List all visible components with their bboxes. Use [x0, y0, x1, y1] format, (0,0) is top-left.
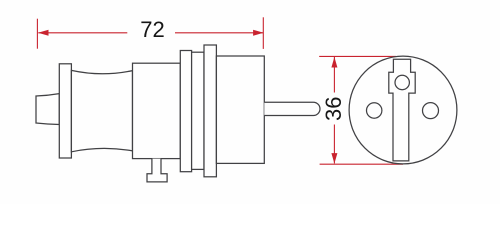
rear body: [216, 56, 264, 163]
waisted body (concave turned section): [71, 70, 132, 151]
right mounting hole: [423, 103, 439, 119]
T-pin below barrel: [147, 159, 167, 182]
left mounting hole: [367, 103, 382, 118]
hole in cam: [395, 75, 409, 89]
svg-text:72: 72: [140, 17, 164, 42]
svg-text:36: 36: [321, 96, 346, 120]
spacer disc: [192, 52, 204, 169]
arrowhead down of 36: [331, 153, 337, 164]
washer 1: [180, 51, 191, 172]
arrowhead right of 72: [253, 30, 264, 36]
washer 2 (large flange disc): [204, 45, 216, 177]
front flange (tall narrow rectangle): [59, 64, 71, 158]
dimension 36: red lines: [319, 56, 403, 164]
cam bar (cross-shaped keyway): [389, 59, 415, 161]
main barrel (large cylinder rectangle): [133, 63, 181, 158]
extension line bottom: [320, 163, 403, 165]
rod with rounded end: [264, 102, 320, 115]
dim line right segment: [175, 32, 263, 34]
extension line top: [319, 55, 396, 57]
dim line top segment: [333, 57, 335, 93]
nose tip (tapered front pin, side view): [36, 94, 59, 125]
arrowhead left of 72: [38, 30, 49, 36]
arrowhead up of 36: [331, 57, 337, 68]
extension line left: [36, 19, 38, 49]
dimension 72: red lines: [37, 17, 263, 49]
dim line left segment: [38, 32, 127, 34]
front view outer circle: [349, 56, 457, 164]
extension line right: [262, 17, 264, 49]
dim line bottom segment: [333, 125, 335, 164]
